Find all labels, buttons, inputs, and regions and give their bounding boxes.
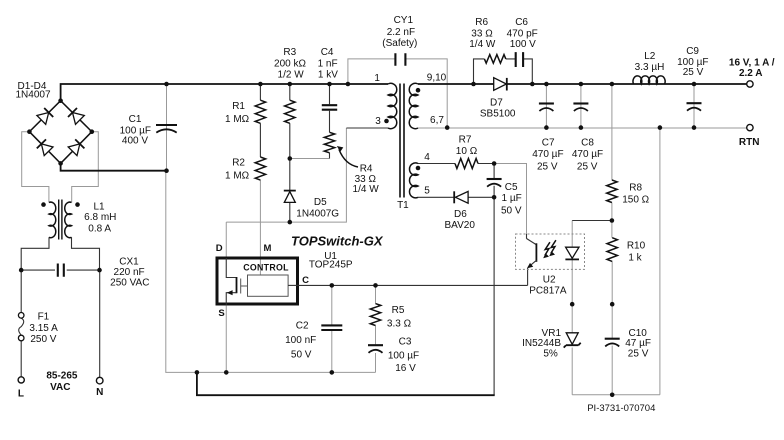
- svg-text:200 kΩ: 200 kΩ: [274, 58, 306, 69]
- svg-text:R10: R10: [627, 240, 646, 251]
- svg-text:25 V: 25 V: [683, 67, 704, 78]
- svg-text:3.3 µH: 3.3 µH: [635, 62, 665, 73]
- svg-text:T1: T1: [397, 200, 409, 211]
- svg-text:4: 4: [424, 152, 430, 163]
- svg-text:33 Ω: 33 Ω: [471, 29, 493, 40]
- svg-text:R7: R7: [459, 134, 472, 145]
- svg-text:6,7: 6,7: [430, 115, 444, 126]
- svg-text:C6: C6: [515, 17, 528, 28]
- svg-text:470 pF: 470 pF: [507, 29, 538, 40]
- svg-text:VAC: VAC: [50, 382, 70, 393]
- svg-text:D5: D5: [314, 197, 327, 208]
- svg-text:1 kV: 1 kV: [318, 69, 338, 80]
- svg-text:2.2 nF: 2.2 nF: [387, 27, 415, 38]
- svg-text:10 Ω: 10 Ω: [456, 146, 478, 157]
- svg-text:16 V, 1 A /: 16 V, 1 A /: [729, 58, 775, 69]
- svg-text:25 V: 25 V: [577, 162, 598, 173]
- svg-text:R2: R2: [232, 158, 245, 169]
- svg-text:25 V: 25 V: [628, 348, 649, 359]
- svg-text:SB5100: SB5100: [480, 109, 516, 120]
- svg-text:100 V: 100 V: [510, 39, 536, 50]
- svg-text:S: S: [218, 308, 224, 319]
- svg-text:PI-3731-070704: PI-3731-070704: [587, 403, 655, 414]
- svg-text:L1: L1: [93, 202, 105, 213]
- svg-text:C2: C2: [296, 321, 309, 332]
- svg-text:C7: C7: [542, 137, 555, 148]
- svg-text:25 V: 25 V: [537, 162, 558, 173]
- svg-text:400 V: 400 V: [122, 135, 148, 146]
- svg-text:C9: C9: [686, 46, 699, 57]
- svg-text:100 nF: 100 nF: [285, 335, 316, 346]
- svg-text:C8: C8: [581, 137, 594, 148]
- svg-text:85-265: 85-265: [46, 371, 78, 382]
- svg-text:U2: U2: [543, 275, 556, 286]
- svg-text:(Safety): (Safety): [382, 38, 417, 49]
- svg-text:2.2 A: 2.2 A: [739, 68, 763, 79]
- svg-text:1/2 W: 1/2 W: [278, 69, 305, 80]
- svg-text:R3: R3: [283, 47, 296, 58]
- svg-text:C4: C4: [321, 47, 334, 58]
- svg-text:1 MΩ: 1 MΩ: [225, 114, 250, 125]
- svg-text:100 µF: 100 µF: [388, 351, 419, 362]
- svg-text:5%: 5%: [543, 348, 558, 359]
- svg-text:D: D: [216, 243, 223, 254]
- svg-text:1N4007: 1N4007: [15, 90, 50, 101]
- svg-text:VR1: VR1: [542, 328, 562, 339]
- svg-text:1 nF: 1 nF: [318, 58, 338, 69]
- svg-text:N: N: [96, 387, 103, 398]
- svg-text:F1: F1: [38, 312, 50, 323]
- svg-text:1 k: 1 k: [628, 252, 642, 263]
- svg-text:BAV20: BAV20: [445, 220, 476, 231]
- svg-text:16 V: 16 V: [395, 363, 416, 374]
- svg-text:9,10: 9,10: [427, 73, 447, 84]
- svg-text:3: 3: [375, 116, 381, 127]
- svg-text:50 V: 50 V: [291, 349, 312, 360]
- svg-text:1/4 W: 1/4 W: [469, 39, 496, 50]
- svg-text:C: C: [302, 275, 309, 286]
- svg-text:C5: C5: [505, 182, 518, 193]
- svg-text:PC817A: PC817A: [529, 286, 567, 297]
- svg-text:250 V: 250 V: [30, 334, 56, 345]
- svg-text:470 µF: 470 µF: [532, 149, 563, 160]
- svg-text:3.15 A: 3.15 A: [29, 323, 58, 334]
- svg-text:R1: R1: [232, 101, 245, 112]
- svg-text:1/4 W: 1/4 W: [353, 184, 380, 195]
- svg-text:TOPSwitch-GX: TOPSwitch-GX: [291, 234, 384, 249]
- svg-text:R5: R5: [392, 305, 405, 316]
- svg-text:250 VAC: 250 VAC: [110, 277, 149, 288]
- svg-text:1 µF: 1 µF: [501, 193, 521, 204]
- svg-text:L: L: [18, 388, 24, 399]
- svg-text:R6: R6: [475, 17, 488, 28]
- svg-text:6.8 mH: 6.8 mH: [84, 212, 116, 223]
- svg-text:5: 5: [424, 185, 430, 196]
- svg-text:CONTROL: CONTROL: [243, 263, 289, 273]
- svg-text:R8: R8: [629, 182, 642, 193]
- svg-text:M: M: [264, 243, 272, 254]
- svg-text:150 Ω: 150 Ω: [622, 194, 649, 205]
- svg-text:RTN: RTN: [739, 137, 760, 148]
- svg-text:L2: L2: [644, 51, 656, 62]
- svg-text:CY1: CY1: [394, 15, 414, 26]
- svg-text:C3: C3: [399, 337, 412, 348]
- svg-text:0.8 A: 0.8 A: [88, 224, 111, 235]
- svg-text:470 µF: 470 µF: [572, 149, 603, 160]
- svg-text:CX1: CX1: [119, 256, 139, 267]
- svg-text:C1: C1: [129, 114, 142, 125]
- svg-text:3.3 Ω: 3.3 Ω: [387, 319, 412, 330]
- svg-text:TOP245P: TOP245P: [309, 259, 353, 270]
- svg-text:220 nF: 220 nF: [114, 267, 145, 278]
- svg-text:1N4007G: 1N4007G: [296, 208, 339, 219]
- svg-text:D7: D7: [490, 97, 503, 108]
- svg-text:1 MΩ: 1 MΩ: [225, 171, 250, 182]
- svg-text:D6: D6: [454, 209, 467, 220]
- svg-text:1: 1: [374, 73, 380, 84]
- svg-text:50 V: 50 V: [501, 206, 522, 217]
